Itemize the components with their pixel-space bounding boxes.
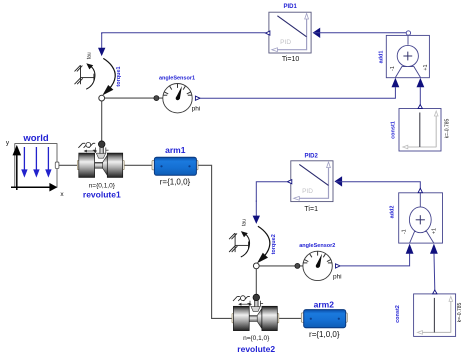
revolute cone — [103, 155, 108, 175]
const1 constant block — [399, 105, 441, 151]
PID output arrow — [266, 31, 270, 35]
svg-text:k=-0.785: k=-0.785 — [457, 302, 463, 322]
PID box — [269, 12, 311, 53]
svg-text:tau: tau — [241, 219, 247, 226]
const vertical axis — [435, 115, 437, 148]
add2 circle — [409, 207, 431, 233]
torque support hatch — [80, 65, 82, 84]
svg-text:+1: +1 — [423, 64, 429, 70]
svg-text:add2: add2 — [390, 206, 396, 219]
PID horizontal axis — [276, 49, 307, 51]
gauge center dot — [176, 96, 180, 100]
world x-axis — [11, 186, 50, 188]
wire arm1.frame_b - revolute2.frame_a — [197, 165, 234, 318]
revolute1 joint icon — [77, 141, 124, 178]
add2 sum block — [399, 188, 443, 243]
torque2 source icon — [229, 201, 270, 269]
svg-text:world: world — [22, 133, 49, 144]
wire add1.y - PID1.u — [314, 32, 407, 34]
arm end mark a — [160, 165, 162, 167]
add2.u2 input arrow — [430, 244, 438, 254]
gauge face — [163, 84, 192, 113]
svg-text:torque2: torque2 — [271, 234, 277, 254]
revolute frame_b tab — [121, 160, 124, 169]
svg-text:arm2: arm2 — [314, 300, 335, 310]
world frame_b connector tab — [55, 162, 59, 169]
revolute support bearing circle — [86, 143, 91, 148]
revolute2 joint icon — [232, 294, 279, 331]
wire const1.y - add1.u2 — [419, 87, 421, 105]
wire torque1.flange - revolute1.axis — [101, 101, 103, 142]
add2 output stub — [419, 193, 421, 207]
add1 box — [386, 35, 429, 77]
const box — [399, 109, 441, 152]
svg-text:r={1,0,0}: r={1,0,0} — [309, 330, 340, 339]
wire const2.y - add2.u2 — [433, 254, 436, 291]
revolute axis flange circle — [98, 141, 105, 148]
revolute support T mark right — [106, 149, 109, 151]
add1 sum block — [386, 35, 429, 77]
torque main curved arrow — [103, 58, 115, 89]
revolute support hatch — [78, 143, 82, 148]
torque support bar — [81, 77, 94, 79]
svg-text:-1: -1 — [390, 66, 396, 71]
svg-text:Ti=10: Ti=10 — [282, 56, 300, 63]
svg-text:PID1: PID1 — [284, 4, 298, 10]
svg-text:+1: +1 — [432, 228, 438, 234]
add1 output stub — [407, 35, 409, 44]
gauge output arrow — [195, 96, 200, 100]
torque tau input arrow — [101, 33, 103, 49]
angleSensor2 gauge icon — [303, 251, 340, 280]
arm cylinder body — [154, 157, 196, 175]
svg-text:r={1,0,0}: r={1,0,0} — [160, 178, 191, 187]
PID input arrow — [313, 28, 321, 38]
const value line — [419, 113, 421, 148]
svg-text:angleSensor2: angleSensor2 — [299, 243, 335, 249]
add2 funnel — [410, 232, 434, 244]
svg-text:Ti=1: Ti=1 — [304, 206, 318, 213]
wire torque2.flange - angleSensor2.flange — [259, 265, 303, 267]
world — [6, 133, 65, 198]
wire PID2.y - torque2.tau — [256, 182, 287, 202]
svg-text:n={0,1,0}: n={0,1,0} — [243, 335, 270, 342]
revolute frame_a tab — [77, 160, 80, 169]
svg-text:angleSensor1: angleSensor1 — [159, 76, 195, 82]
PID1 controller block — [266, 12, 321, 53]
revolute axis shaft — [100, 146, 104, 153]
arm frame_b tab — [195, 161, 198, 170]
add1.u2 input arrow — [417, 78, 425, 87]
angleSensor1 flange dot — [154, 96, 159, 101]
svg-text:arm1: arm1 — [165, 145, 186, 155]
arm end mark b — [188, 165, 190, 167]
PID vertical axis — [306, 18, 308, 51]
svg-text:const1: const1 — [391, 121, 397, 139]
arm1 body cylinder — [152, 157, 198, 175]
wire torque1.flange - angleSensor1.flange — [104, 97, 163, 99]
svg-text:n={0,1,0}: n={0,1,0} — [89, 183, 116, 190]
svg-text:phi: phi — [192, 106, 201, 113]
wire add2.y - PID2.u — [336, 182, 420, 189]
revolute support double arrow — [85, 150, 97, 152]
revolute right cylinder — [107, 153, 122, 177]
wire angleSensor1.phi - add1.u1 — [200, 87, 395, 98]
wire PID1.y - torque1.tau — [102, 33, 266, 34]
const2 constant block — [414, 290, 456, 336]
PID diagonal line — [277, 16, 306, 37]
add1 circle — [397, 45, 418, 66]
revolute support T mark left — [93, 149, 96, 151]
const horizontal axis — [407, 146, 437, 148]
wire revolute1.frame_b - arm1.frame_a — [124, 164, 152, 166]
const output arrow — [418, 105, 422, 109]
svg-text:PID: PID — [280, 39, 291, 46]
torque support reaction arc — [86, 66, 95, 89]
svg-text:add1: add1 — [379, 51, 385, 64]
add1 funnel — [395, 67, 420, 78]
svg-text:phi: phi — [333, 274, 342, 281]
torque1 source icon — [75, 33, 116, 101]
add2 plus sign — [416, 219, 425, 221]
wire torque2.flange - revolute2.axis — [255, 269, 257, 295]
wire world.frame_b - revolute1.frame_a — [59, 164, 78, 166]
arm frame_a tab — [152, 161, 155, 170]
PID2 controller block — [287, 161, 342, 202]
wire angleSensor2.phi - add2.u1 — [340, 254, 410, 266]
revolute left cylinder — [79, 153, 95, 177]
wire revolute2.frame_b - arm2.frame_a — [278, 317, 302, 319]
add2.u1 input arrow — [406, 244, 414, 254]
add1.y output circle — [406, 31, 410, 35]
svg-text:k=-0.785: k=-0.785 — [444, 118, 450, 138]
add2 box — [399, 193, 443, 243]
svg-text:PID2: PID2 — [305, 153, 319, 159]
gauge ticks — [177, 84, 179, 88]
svg-text:revolute1: revolute1 — [83, 190, 121, 200]
angleSensor1 gauge icon — [163, 84, 200, 113]
world gravity arrow 2 — [35, 147, 37, 170]
svg-text:const2: const2 — [395, 305, 401, 323]
add1.u1 input arrow — [392, 78, 400, 88]
world y-axis — [16, 155, 18, 190]
angleSensor2 flange dot — [295, 263, 300, 268]
add2 output arrow — [418, 188, 422, 192]
torque flange circle — [99, 95, 105, 101]
svg-text:torque1: torque1 — [116, 66, 122, 86]
revolute inner shaft — [94, 162, 107, 168]
svg-text:-1: -1 — [401, 229, 407, 234]
arm2 body cylinder — [301, 310, 347, 328]
world gravity arrow 3 — [47, 147, 49, 170]
gauge needle — [176, 86, 182, 99]
svg-text:revolute2: revolute2 — [237, 344, 275, 354]
add1 plus sign — [403, 55, 412, 57]
revolute axis funnel — [96, 153, 105, 158]
svg-text:tau: tau — [87, 52, 93, 59]
world gravity arrow 1 — [23, 147, 25, 170]
